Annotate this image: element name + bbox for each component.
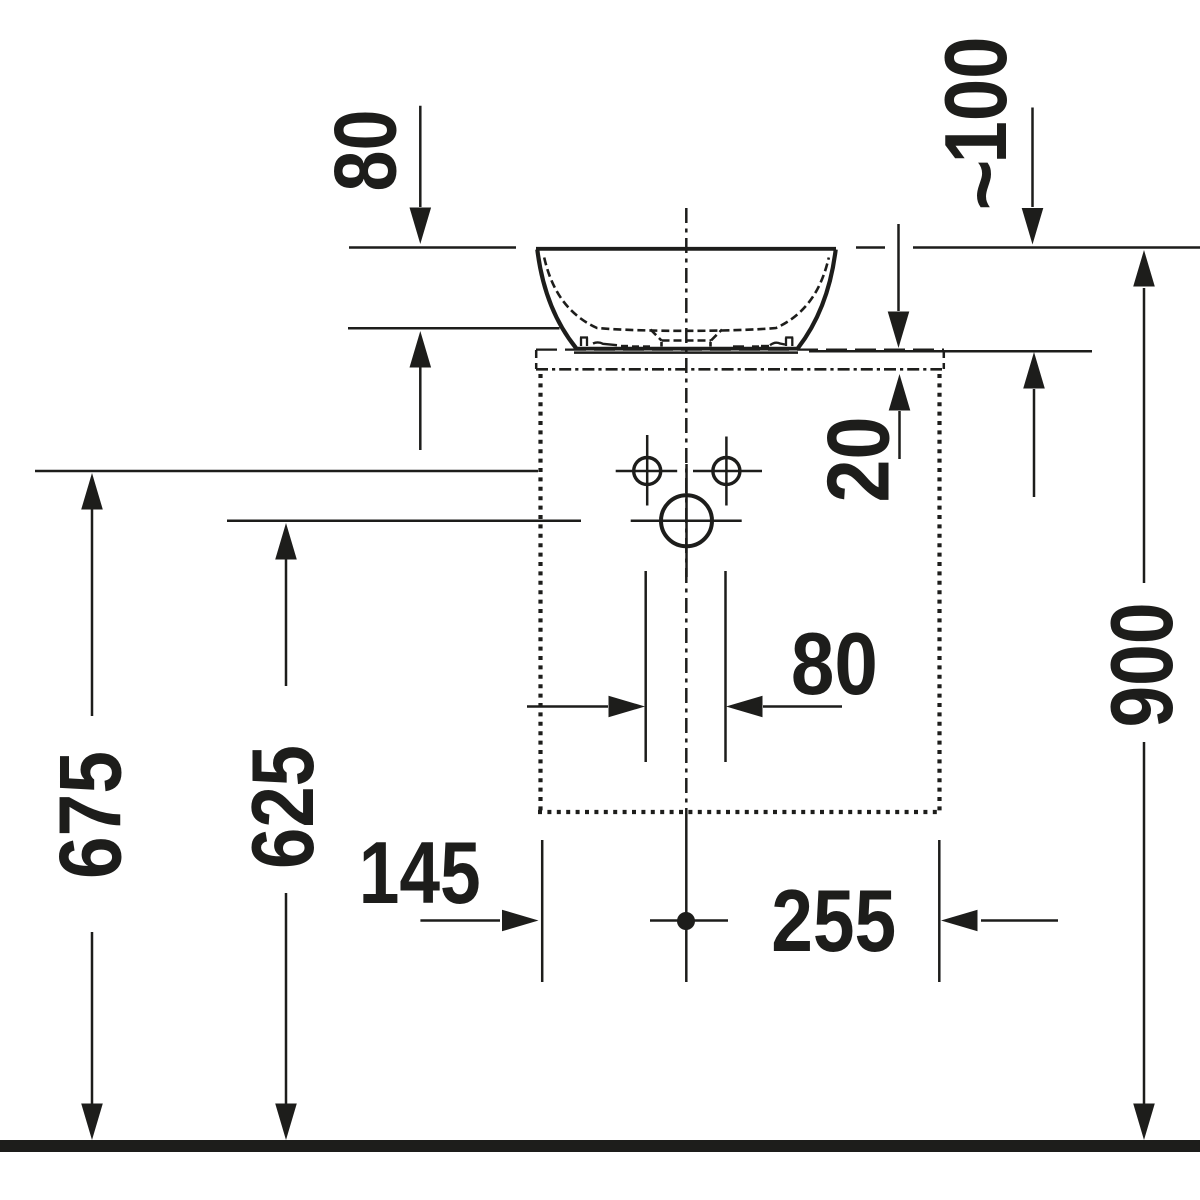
svg-text:~: ~ [933,159,1032,210]
svg-text:900: 900 [1092,603,1191,728]
svg-text:255: 255 [771,871,896,970]
svg-text:625: 625 [233,745,332,869]
svg-text:20: 20 [809,417,908,503]
svg-text:100: 100 [926,37,1025,164]
svg-text:80: 80 [791,614,878,713]
svg-text:145: 145 [359,823,481,922]
svg-text:675: 675 [41,751,140,879]
svg-text:80: 80 [316,110,415,192]
